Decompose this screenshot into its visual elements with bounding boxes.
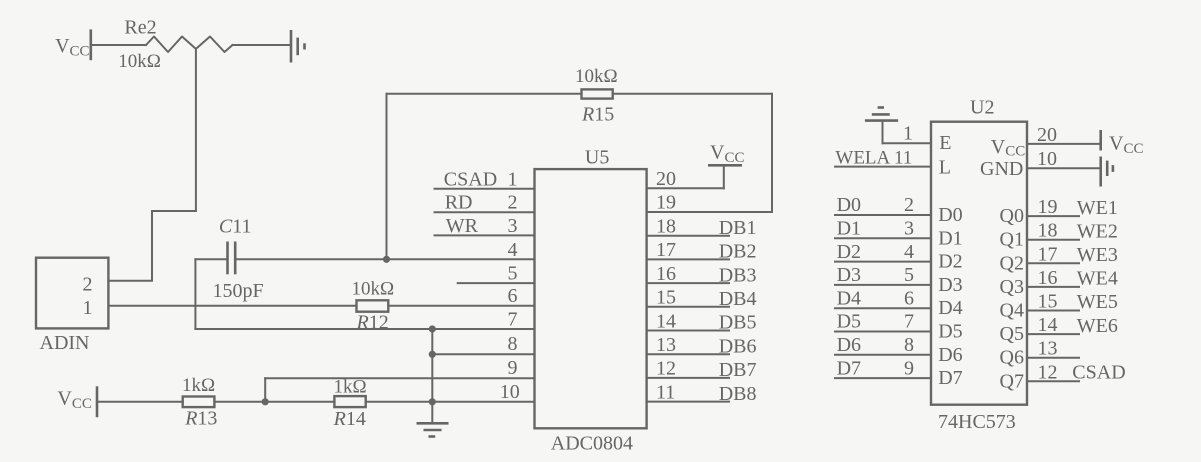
- svg-text:WR: WR: [446, 215, 479, 237]
- wire (ground-net corner): [194, 259, 196, 329]
- svg-text:D1: D1: [837, 218, 861, 240]
- U2 pin 6 D4: [835, 287, 963, 319]
- U2 pin 8 D6: [835, 334, 963, 366]
- svg-text:E: E: [939, 132, 951, 154]
- U5 pin 3 WR: [435, 215, 535, 237]
- svg-text:1kΩ: 1kΩ: [334, 377, 367, 398]
- U5 pin 10: [366, 381, 535, 403]
- svg-text:8: 8: [904, 334, 914, 356]
- U5 pin 16 DB3: [647, 263, 757, 286]
- U2 pin 19 Q0: [1000, 196, 1118, 227]
- svg-text:DB1: DB1: [719, 217, 757, 239]
- U5 pin 8: [432, 333, 534, 355]
- svg-text:1kΩ: 1kΩ: [182, 375, 215, 396]
- U2 pin 14 Q5: [1000, 314, 1118, 345]
- svg-text:U2: U2: [970, 97, 994, 119]
- svg-text:16: 16: [1038, 267, 1058, 289]
- svg-text:Q2: Q2: [1000, 252, 1024, 274]
- U2 pin 3 D1: [835, 218, 963, 250]
- svg-text:20: 20: [656, 168, 676, 190]
- svg-text:7: 7: [508, 309, 518, 331]
- svg-text:10: 10: [500, 381, 520, 403]
- ground (top-left): [291, 30, 305, 63]
- U2 pin 11 (L) WELA: [835, 147, 951, 178]
- wire (R13/R14 node up to pin 9 line): [264, 378, 266, 402]
- U2 pin 12 Q7: [1000, 361, 1126, 392]
- svg-text:Q5: Q5: [1000, 323, 1024, 345]
- U5 pin 9: [265, 357, 534, 379]
- ground (above U2 pin 1): [865, 108, 898, 144]
- U5 pin 20: [647, 165, 724, 190]
- ground (U2 pin 10): [1101, 157, 1113, 187]
- U2 pin 18 Q1: [1000, 220, 1118, 251]
- svg-text:D5: D5: [837, 311, 861, 333]
- svg-text:19: 19: [1038, 196, 1058, 218]
- svg-text:5: 5: [508, 263, 518, 285]
- svg-text:DB8: DB8: [719, 383, 757, 405]
- svg-text:D2: D2: [938, 251, 962, 273]
- U5 pin 2 RD: [435, 192, 535, 214]
- svg-text:20: 20: [1037, 124, 1057, 146]
- svg-text:150pF: 150pF: [213, 280, 264, 302]
- wire (R15 down to U5 pin 19): [771, 94, 773, 212]
- svg-text:Q4: Q4: [1000, 300, 1024, 322]
- resistor R14 1k: [333, 377, 367, 430]
- svg-text:DB6: DB6: [719, 335, 757, 357]
- wire (R12 to U5 pin 6): [388, 305, 534, 307]
- svg-text:CSAD: CSAD: [1072, 362, 1125, 384]
- U5 pin 6: [508, 285, 518, 307]
- resistor R12 10k: [352, 279, 395, 334]
- IC U2 74HC573: [931, 97, 1027, 434]
- svg-text:D3: D3: [837, 264, 861, 286]
- U2 pin 7 D5: [835, 311, 963, 343]
- wire (ground bus): [431, 329, 433, 423]
- svg-text:R12: R12: [356, 312, 389, 334]
- svg-text:Q1: Q1: [1000, 229, 1024, 251]
- svg-text:3: 3: [904, 218, 914, 240]
- resistor R13 1k: [182, 375, 217, 430]
- svg-text:R15: R15: [581, 104, 614, 126]
- U2 pin 16 Q3: [1000, 267, 1118, 298]
- wire: [92, 44, 146, 46]
- wire: [613, 93, 772, 95]
- svg-text:WELA 11: WELA 11: [835, 147, 912, 168]
- wire: [98, 401, 183, 403]
- svg-text:DB2: DB2: [719, 241, 757, 263]
- svg-text:7: 7: [904, 311, 914, 333]
- U5 pin 5: [458, 263, 535, 285]
- svg-text:14: 14: [656, 310, 676, 332]
- svg-text:6: 6: [904, 287, 914, 309]
- svg-text:14: 14: [1038, 314, 1058, 336]
- U2 pin 15 Q4: [1000, 291, 1118, 322]
- wire: [214, 401, 334, 403]
- svg-text:D1: D1: [938, 227, 962, 249]
- resistor R15 10k: [575, 66, 618, 126]
- svg-text:4: 4: [508, 239, 518, 261]
- svg-text:L: L: [939, 157, 951, 179]
- svg-text:DB7: DB7: [719, 359, 757, 381]
- U2 pin 13 Q6: [1000, 338, 1080, 369]
- U2 pin 1 (E): [883, 123, 952, 155]
- svg-text:1: 1: [903, 123, 913, 145]
- svg-text:Q7: Q7: [1000, 370, 1024, 392]
- IC U5 ADC0804: [535, 146, 647, 454]
- svg-text:DB5: DB5: [719, 312, 757, 334]
- junction: [429, 398, 436, 405]
- U5 pin 18 DB1: [647, 216, 757, 239]
- svg-text:17: 17: [656, 239, 676, 261]
- svg-text:WE1: WE1: [1077, 197, 1118, 219]
- svg-text:1: 1: [83, 297, 93, 319]
- svg-text:D6: D6: [837, 334, 861, 356]
- svg-text:ADC0804: ADC0804: [551, 433, 633, 455]
- svg-text:17: 17: [1038, 243, 1058, 265]
- svg-text:WE5: WE5: [1077, 291, 1118, 313]
- svg-text:R13: R13: [184, 408, 217, 430]
- svg-text:GND: GND: [980, 158, 1023, 180]
- wire (ADIN pin 1 to R12): [108, 305, 356, 307]
- svg-text:6: 6: [508, 285, 518, 307]
- potentiometer Re2 10k: [118, 16, 232, 72]
- svg-text:D2: D2: [837, 241, 861, 263]
- svg-text:18: 18: [656, 216, 676, 238]
- svg-text:D3: D3: [938, 274, 962, 296]
- svg-text:C11: C11: [219, 215, 252, 237]
- svg-text:WE2: WE2: [1077, 220, 1118, 242]
- junction: [383, 256, 390, 263]
- svg-text:WE6: WE6: [1077, 315, 1118, 337]
- svg-text:9: 9: [904, 357, 914, 379]
- svg-text:2: 2: [904, 194, 914, 216]
- svg-text:10: 10: [1037, 148, 1057, 170]
- power symbol VCC (bottom-left): [57, 386, 97, 417]
- svg-text:12: 12: [656, 358, 676, 380]
- svg-text:1: 1: [508, 168, 518, 190]
- wire (C11 to U5 pin 4): [236, 258, 534, 260]
- svg-text:DB3: DB3: [719, 264, 757, 286]
- U5 pin 17 DB2: [647, 239, 757, 262]
- svg-text:D5: D5: [938, 321, 962, 343]
- svg-text:D7: D7: [837, 357, 861, 379]
- svg-text:10kΩ: 10kΩ: [118, 51, 161, 72]
- svg-text:4: 4: [904, 241, 914, 263]
- power symbol VCC (U5 pin 20): [708, 142, 744, 167]
- svg-text:10kΩ: 10kΩ: [575, 66, 618, 87]
- U5 pin 15 DB4: [647, 287, 757, 310]
- svg-text:DB4: DB4: [719, 288, 757, 310]
- svg-text:13: 13: [656, 334, 676, 356]
- svg-text:2: 2: [83, 274, 93, 296]
- svg-text:15: 15: [1038, 291, 1058, 313]
- connector ADIN: [36, 258, 108, 355]
- svg-text:Q0: Q0: [1000, 205, 1024, 227]
- U2 pin 5 D3: [835, 264, 963, 296]
- svg-text:18: 18: [1038, 220, 1058, 242]
- wire: [233, 44, 291, 46]
- svg-text:11: 11: [656, 381, 675, 403]
- svg-text:19: 19: [656, 192, 676, 214]
- U5 pin 14 DB5: [647, 310, 757, 333]
- capacitor C11 150pF: [213, 215, 264, 302]
- svg-text:74HC573: 74HC573: [938, 411, 1016, 433]
- svg-text:15: 15: [656, 287, 676, 309]
- svg-text:R14: R14: [333, 408, 366, 430]
- svg-text:D7: D7: [938, 367, 962, 389]
- ground (below R14): [417, 423, 449, 436]
- U2 pin 9 D7: [835, 357, 963, 389]
- svg-text:16: 16: [656, 263, 676, 285]
- U2 pin 17 Q2: [1000, 243, 1118, 274]
- svg-text:CSAD: CSAD: [444, 168, 497, 190]
- svg-text:Q3: Q3: [1000, 276, 1024, 298]
- junction: [429, 325, 436, 332]
- svg-text:D0: D0: [837, 194, 861, 216]
- svg-text:RD: RD: [445, 192, 473, 214]
- junction: [262, 398, 269, 405]
- wire: [195, 258, 226, 260]
- svg-text:D4: D4: [837, 287, 861, 309]
- svg-text:3: 3: [508, 215, 518, 237]
- svg-text:12: 12: [1038, 361, 1058, 383]
- U2 pin 20 VCC: [991, 124, 1100, 159]
- U5 pin 4: [508, 239, 518, 261]
- wire (junction up to R15): [386, 94, 388, 259]
- junction: [429, 351, 436, 358]
- U5 pin 11 DB8: [647, 381, 757, 404]
- svg-text:Q6: Q6: [1000, 347, 1024, 369]
- svg-text:D0: D0: [938, 204, 962, 226]
- U5 pin 7: [195, 309, 534, 331]
- svg-text:ADIN: ADIN: [40, 332, 90, 354]
- svg-text:10kΩ: 10kΩ: [352, 279, 395, 300]
- svg-text:D4: D4: [938, 297, 962, 319]
- svg-text:13: 13: [1038, 338, 1058, 360]
- U2 pin 10 GND: [980, 148, 1100, 180]
- U5 pin 19: [647, 192, 772, 214]
- svg-text:WE4: WE4: [1077, 268, 1118, 290]
- svg-text:Re2: Re2: [124, 16, 156, 38]
- wire: [387, 93, 582, 95]
- svg-text:WE3: WE3: [1077, 244, 1118, 266]
- wire (Re2 wiper to ADIN pin 2): [108, 49, 195, 281]
- svg-text:2: 2: [508, 192, 518, 214]
- svg-text:D6: D6: [938, 344, 962, 366]
- svg-text:9: 9: [508, 357, 518, 379]
- U5 pin 13 DB6: [647, 334, 757, 357]
- power symbol VCC (top-left): [55, 29, 91, 60]
- svg-text:U5: U5: [585, 146, 609, 168]
- U2 pin 2 D0: [835, 194, 963, 226]
- svg-text:8: 8: [508, 333, 518, 355]
- U5 pin 1 CSAD: [435, 168, 535, 190]
- U2 pin 4 D2: [835, 241, 963, 273]
- svg-text:5: 5: [904, 264, 914, 286]
- power symbol VCC (U2 pin 20): [1101, 130, 1144, 157]
- U5 pin 12 DB7: [647, 358, 757, 381]
